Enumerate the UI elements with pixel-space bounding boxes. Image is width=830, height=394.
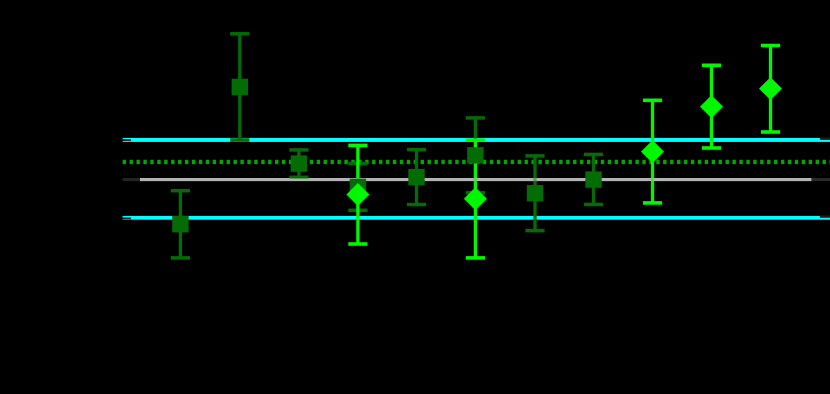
square marker S1	[172, 216, 188, 232]
diamond marker D9	[641, 140, 664, 163]
error bar S1	[171, 189, 190, 260]
square marker S8	[585, 171, 601, 187]
gray reference line dark right segment	[811, 178, 830, 181]
error bar S3	[289, 148, 308, 179]
gray reference line bright segment	[140, 178, 811, 181]
gray reference line dark left segment	[123, 178, 140, 181]
square marker S7	[527, 185, 543, 201]
lower cyan band line	[123, 216, 830, 220]
error bar S7	[525, 154, 544, 232]
gray reference line translucent overlay over error bars	[140, 178, 811, 181]
diamond marker D6	[464, 187, 487, 210]
diamond marker D10	[700, 95, 723, 118]
square marker S3	[291, 155, 307, 171]
error bar D6	[466, 138, 485, 259]
upper cyan band line	[123, 138, 830, 142]
dark green error bars (square series)	[171, 32, 603, 260]
upper cyan band left dark notch	[122, 139, 131, 141]
error bar S6	[466, 116, 485, 194]
error bar S5	[407, 148, 426, 206]
diamond marker D4	[346, 183, 369, 206]
upper cyan band right dark notch	[820, 138, 830, 140]
square marker S4	[350, 179, 366, 195]
square marker S5	[408, 169, 424, 185]
bright green error bars (diamond series)	[348, 44, 780, 260]
error bar D4	[348, 144, 367, 246]
square marker S2	[232, 79, 248, 95]
dark green square markers	[172, 79, 602, 233]
error bar S4	[348, 162, 367, 212]
error bar D10	[702, 64, 721, 150]
dotted green mean line	[123, 160, 830, 164]
error bar D11	[761, 44, 780, 134]
error bar S2	[230, 32, 249, 142]
error bar S8	[584, 153, 603, 207]
lower cyan band left dark notch	[122, 218, 131, 220]
square marker S6	[467, 147, 483, 163]
diamond marker D11	[759, 77, 782, 100]
lower cyan band right dark notch	[820, 216, 830, 218]
error bar D9	[643, 99, 662, 205]
bright green diamond markers	[346, 77, 782, 210]
